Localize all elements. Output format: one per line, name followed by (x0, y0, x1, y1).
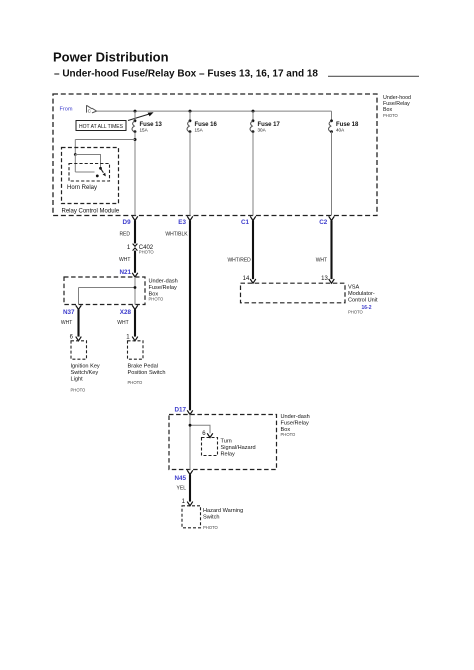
svg-text:WHT/RED: WHT/RED (227, 257, 251, 263)
connector X28 (132, 305, 138, 309)
node junction under-dash (134, 286, 137, 289)
connector D9 (132, 216, 138, 220)
hazard switch label (203, 508, 243, 530)
node junction fuse13 (134, 110, 137, 113)
horn relay box (69, 164, 110, 182)
svg-text:PHOTO: PHOTO (383, 113, 399, 118)
wire fuse13 drop (134, 111, 136, 121)
svg-text:WHT: WHT (316, 257, 327, 263)
svg-text:13: 13 (321, 276, 328, 282)
svg-text:Modulator-: Modulator- (348, 291, 375, 297)
header rule (328, 75, 419, 77)
VSA label (348, 285, 378, 315)
under-dash fuse/relay box 2 (169, 415, 277, 470)
wire fuse17 to box bottom (252, 132, 254, 216)
under-dash fuse/relay box 1 (64, 277, 145, 305)
svg-text:HOT AT ALL TIMES: HOT AT ALL TIMES (79, 124, 124, 130)
connector E3 (187, 216, 193, 220)
wire D9 RED (134, 221, 136, 244)
wire C2 WHT (330, 221, 332, 280)
connector N37 (76, 305, 82, 309)
wire fuse17 drop (252, 111, 254, 121)
turn signal relay label (221, 439, 256, 458)
wire relay module internal (75, 155, 100, 173)
connector into ignition key switch (76, 337, 82, 341)
arrow to bus (128, 114, 151, 121)
brake pedal position switch box (128, 341, 144, 359)
brake pedal switch label (128, 364, 166, 386)
label HOT AT ALL TIMES (76, 121, 126, 131)
svg-text:Position Switch: Position Switch (128, 370, 166, 376)
under-dash box 2 label (281, 414, 310, 437)
svg-text:N37: N37 (63, 309, 75, 316)
svg-text:– Under-hood Fuse/Relay Box –: – Under-hood Fuse/Relay Box – Fuses 13, … (54, 69, 318, 80)
svg-text:Hazard Warning: Hazard Warning (203, 508, 243, 514)
svg-text:Control Unit: Control Unit (348, 298, 378, 304)
svg-text:RED: RED (119, 231, 130, 237)
connector C402 (133, 244, 138, 247)
node junction fuse17 (252, 110, 255, 113)
svg-text:15A: 15A (140, 128, 149, 133)
svg-text:14: 14 (243, 276, 250, 282)
under-dash box 1 label (149, 278, 178, 301)
svg-text:From: From (60, 106, 73, 112)
node junction fuse16 (189, 110, 192, 113)
fuse Fuse 17 (252, 119, 255, 122)
svg-text:PHOTO: PHOTO (281, 432, 297, 437)
wire fuse18 to box bottom (331, 132, 333, 216)
svg-text:PHOTO: PHOTO (139, 250, 155, 255)
svg-text:WHT: WHT (119, 257, 130, 263)
connector C2 (329, 216, 335, 220)
svg-text:1: 1 (126, 334, 130, 340)
wire fuse16 to box bottom (189, 132, 191, 216)
svg-text:N21: N21 (119, 269, 131, 276)
svg-text:Under-dash: Under-dash (149, 278, 178, 284)
svg-text:Power Distribution: Power Distribution (53, 50, 169, 65)
svg-text:Brake Pedal: Brake Pedal (128, 364, 158, 370)
wire fuse13 to box bottom (134, 132, 136, 216)
connector into VSA pin 13 (329, 279, 335, 283)
under-hood box label (383, 95, 411, 118)
connector into turn signal relay (207, 433, 213, 437)
under-hood fuse/relay box (53, 94, 377, 216)
svg-text:WHT/BLK: WHT/BLK (165, 231, 188, 237)
wire inside under-dash box 1 (79, 277, 136, 305)
svg-text:1: 1 (127, 245, 131, 251)
svg-text:Signal/Hazard: Signal/Hazard (221, 445, 256, 451)
svg-text:PHOTO: PHOTO (203, 525, 219, 530)
svg-text:Fuse/Relay: Fuse/Relay (281, 420, 309, 426)
wire branch to relay control module (134, 138, 137, 141)
svg-text:WHT: WHT (117, 320, 128, 326)
svg-text:PHOTO: PHOTO (71, 387, 87, 392)
relay control module box (62, 148, 119, 204)
svg-text:Fuse/Relay: Fuse/Relay (149, 285, 177, 291)
svg-text:16-2: 16-2 (361, 305, 371, 311)
svg-text:PHOTO: PHOTO (128, 380, 144, 385)
svg-text:D9: D9 (123, 219, 132, 226)
fuse Fuse 13 (134, 119, 137, 122)
fuse Fuse 16 (189, 119, 192, 122)
svg-text:E3: E3 (178, 219, 186, 226)
connector into brake pedal switch (132, 337, 138, 341)
hazard warning switch box (182, 506, 201, 528)
turn signal/hazard relay box (202, 438, 218, 456)
connector N45 (187, 470, 193, 474)
wire bus from pennant (97, 110, 332, 112)
svg-text:YEL: YEL (177, 486, 187, 492)
ignition key switch box (71, 341, 87, 359)
svg-text:D17: D17 (174, 407, 186, 414)
svg-text:PHOTO: PHOTO (149, 297, 165, 302)
wire fuse16 drop (189, 111, 191, 121)
ignition key switch label (71, 364, 100, 393)
svg-text:C1: C1 (241, 219, 250, 226)
svg-text:Switch: Switch (203, 515, 219, 521)
node junction box2 (189, 424, 192, 427)
VSA modulator-control unit box (241, 283, 346, 303)
connector C1 (250, 216, 256, 220)
svg-text:15A: 15A (195, 128, 204, 133)
wire X28 WHT (134, 310, 136, 337)
svg-text:Turn: Turn (221, 439, 232, 445)
svg-text:Light: Light (71, 377, 84, 383)
svg-text:VSA: VSA (348, 285, 359, 291)
svg-text:Relay Control Module: Relay Control Module (62, 209, 120, 215)
svg-text:C2: C2 (319, 219, 328, 226)
svg-text:X28: X28 (120, 309, 132, 316)
svg-text:Horn Relay: Horn Relay (67, 185, 97, 191)
fuse Fuse 18 (330, 119, 333, 122)
svg-text:N45: N45 (174, 475, 186, 482)
connector into VSA pin 14 (250, 279, 256, 283)
svg-text:6: 6 (202, 431, 206, 437)
connector pennant C (87, 105, 97, 113)
node junction in relay module (74, 153, 77, 156)
svg-text:Switch/Key: Switch/Key (71, 370, 99, 376)
svg-text:PHOTO: PHOTO (348, 310, 364, 315)
svg-text:1: 1 (182, 499, 186, 505)
wire fuse18 drop (331, 111, 333, 121)
svg-text:Relay: Relay (221, 452, 236, 458)
wire C1 WHT/RED (252, 221, 254, 280)
connector into hazard switch (187, 502, 193, 506)
wire inside under-dash box 2 (190, 415, 210, 470)
svg-text:WHT: WHT (61, 320, 72, 326)
wire WHT (134, 251, 136, 273)
wire YEL (189, 475, 191, 502)
svg-text:Ignition Key: Ignition Key (71, 364, 100, 370)
wire E3 WHT/BLK (189, 221, 191, 411)
horn relay switch (99, 167, 102, 170)
svg-text:30A: 30A (258, 128, 267, 133)
svg-text:40A: 40A (336, 128, 345, 133)
wire N37 WHT (77, 310, 79, 337)
svg-text:C: C (88, 109, 92, 114)
svg-text:Under-dash: Under-dash (281, 414, 310, 420)
svg-text:6: 6 (70, 334, 74, 340)
